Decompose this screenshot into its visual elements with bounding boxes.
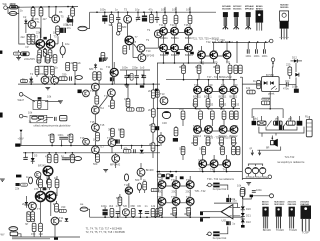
speaker SP [271, 136, 278, 147]
resistor pair Rq6 [151, 208, 160, 216]
svg-text:1N4148: 1N4148 [261, 97, 271, 101]
resistor R29 [151, 90, 155, 98]
contact resistor A [257, 121, 266, 125]
svg-text:BD911: BD911 [185, 36, 193, 40]
ground G4 [58, 101, 63, 103]
svg-text:100n: 100n [292, 85, 298, 89]
cap C8 with arrow [136, 12, 140, 21]
resistor Rv1 [159, 207, 163, 215]
svg-text:T19: T19 [124, 183, 129, 187]
cap blob between [43, 187, 47, 190]
wire output right [242, 196, 269, 199]
wires T27-29 up [201, 42, 227, 63]
input WE L terminal [19, 114, 23, 118]
thermistor pair P3 [26, 212, 35, 222]
svg-text:2SA1943: 2SA1943 [300, 203, 310, 206]
svg-text:0R33: 0R33 [220, 103, 227, 107]
svg-text:0R33: 0R33 [213, 65, 220, 69]
emitter blob F2 [180, 176, 184, 179]
bus y108.4 [157, 107, 240, 109]
diode Dc2 [141, 75, 144, 78]
elko Cq1 [103, 207, 108, 217]
transistor T52 [92, 146, 100, 154]
svg-text:D5: D5 [34, 154, 38, 158]
svg-text:T13: T13 [160, 92, 165, 96]
svg-text:47k: 47k [45, 155, 50, 159]
label cluster outbot [156, 107, 238, 216]
left edge mark2 [0, 113, 3, 118]
svg-text:0R33: 0R33 [231, 141, 238, 145]
svg-text:220R: 220R [10, 2, 16, 6]
junctions y79.7 [183, 79, 235, 81]
power transistor T28 [210, 51, 218, 59]
svg-text:100u: 100u [100, 8, 106, 12]
wire y63 [157, 62, 215, 64]
svg-text:2k2: 2k2 [21, 35, 26, 39]
svg-text:47k: 47k [124, 147, 129, 151]
top bus y12 [90, 11, 216, 13]
svg-text:2SA1930: 2SA1930 [288, 203, 298, 206]
svg-text:12k: 12k [77, 61, 82, 65]
diode D11 [295, 73, 299, 77]
oval Rq1 [137, 183, 141, 190]
LED D2 [63, 14, 72, 26]
package Q5 TO220 [279, 11, 289, 40]
svg-text:1n5: 1n5 [140, 66, 145, 70]
wires opamp area [200, 210, 243, 225]
svg-text:0R33: 0R33 [207, 103, 214, 107]
power transistor T31 [205, 86, 213, 94]
svg-text:150: 150 [36, 59, 41, 63]
elko Cx1 [214, 195, 238, 208]
elko Cr1 dark [275, 121, 280, 125]
rails link verticals [95, 146, 141, 153]
connector ellipse 2 [75, 76, 82, 80]
elko C1 ellipse [9, 11, 17, 15]
diode arrow left [18, 130, 24, 141]
fuse box F1 [10, 2, 18, 9]
power transistor T80 [194, 126, 202, 134]
svg-text:WY: WY [1, 233, 5, 237]
svg-text:BF470: BF470 [256, 7, 263, 10]
junctions y42 [221, 41, 266, 43]
vertical feeds rows7-8 [162, 212, 190, 217]
power transistor T88 [158, 181, 166, 189]
transistor T84 left [157, 135, 165, 143]
svg-text:47k: 47k [37, 176, 42, 180]
resistor R1 [31, 7, 35, 21]
wire chain row8 [166, 202, 187, 204]
cap Cq3 [145, 212, 149, 214]
svg-text:C30: C30 [162, 121, 167, 125]
svg-text:przek.: przek. [268, 92, 275, 96]
wire WE P [23, 95, 35, 102]
wire chain row4 [201, 91, 230, 93]
label cluster topmid [89, 8, 153, 113]
svg-text:T20: T20 [123, 204, 128, 208]
svg-text:bezpiecznik: bezpiecznik [213, 236, 227, 240]
svg-text:100n: 100n [122, 66, 128, 70]
ground G5 [0, 179, 5, 181]
svg-text:BD140: BD140 [262, 203, 269, 206]
power transistor T86 [210, 160, 218, 168]
junction dots bus y84 extra [126, 83, 154, 85]
wires T30-33 [198, 80, 235, 99]
resistor R15 [73, 62, 77, 84]
svg-text:T16: T16 [104, 94, 109, 98]
svg-text:0R33: 0R33 [179, 65, 186, 69]
svg-text:BD911: BD911 [160, 36, 168, 40]
cap Cn3 100n [262, 43, 268, 58]
bottom rail y237 [12, 236, 80, 238]
diode chain D21 [241, 213, 245, 216]
wire under relay [262, 91, 270, 106]
verticals rows top [161, 126, 183, 160]
svg-text:680: 680 [116, 196, 121, 200]
package Q1 TO92 [223, 12, 228, 29]
resistor Ro1 [39, 179, 43, 187]
resistor R2 [39, 7, 43, 38]
transistor T20 [91, 106, 104, 114]
output coil box [240, 190, 244, 197]
ground G2 [45, 87, 50, 89]
power transistor T82 [219, 126, 227, 134]
svg-text:T1, T4, T6, T10, T17 = BC546B: T1, T4, T6, T10, T17 = BC546B [86, 226, 122, 230]
wire y66 [37, 65, 52, 67]
svg-text:150: 150 [47, 59, 52, 63]
resistor Rp1 [288, 66, 292, 79]
junctions y108 [195, 108, 235, 110]
resistor Rm5 [71, 153, 75, 163]
bottom bus y217.2 [90, 216, 242, 218]
resistor Rp2 [257, 80, 261, 88]
power transistor T27 [198, 51, 206, 59]
svg-text:T21-T42: T21-T42 [285, 155, 295, 159]
svg-text:220: 220 [286, 63, 291, 67]
resistor Ru1 [181, 146, 185, 154]
svg-text:D20: D20 [246, 207, 251, 211]
label cluster botleft [22, 120, 154, 236]
power transistor T92 [172, 198, 180, 206]
wire top bus left [19, 6, 78, 9]
node A [18, 6, 20, 8]
resistor R18 [150, 12, 154, 23]
resistor Rt5 [174, 128, 178, 136]
svg-text:100: 100 [108, 104, 113, 108]
vertical feeds columns [165, 7, 190, 12]
svg-text:T16: T16 [80, 136, 85, 140]
wire chain row1 [167, 32, 184, 34]
svg-text:10R: 10R [179, 107, 184, 111]
cap C12 [124, 70, 128, 84]
resistor Rn4 [96, 154, 100, 162]
wire to gnd [45, 101, 60, 103]
black comp left [78, 90, 82, 94]
label cluster psu [246, 56, 298, 91]
resistor Ro4 [32, 223, 36, 231]
resistor Rb2 [197, 65, 201, 80]
svg-text:BD912: BD912 [219, 134, 227, 138]
cap Cn1 100n [245, 43, 251, 58]
transistor T63 [51, 217, 59, 225]
junction dots top bus [32, 6, 69, 8]
wires row5 [203, 155, 227, 172]
svg-text:10R: 10R [219, 147, 224, 151]
junction dots outtop bus [164, 11, 191, 13]
resistor Rn5 [151, 124, 155, 132]
power transistor T83 [230, 126, 238, 134]
svg-text:2k2: 2k2 [149, 142, 154, 146]
svg-text:T27 - T34 BD911/912: T27 - T34 BD911/912 [207, 75, 232, 79]
svg-text:na wspólnym radiatorze: na wspólnym radiatorze [277, 160, 305, 164]
svg-text:10k: 10k [28, 111, 33, 115]
diode Dc1 [127, 75, 130, 78]
svg-text:RL: RL [305, 115, 309, 119]
svg-text:47k: 47k [124, 97, 129, 101]
transistor T54 [110, 155, 121, 167]
diode Do2 [65, 218, 69, 221]
svg-text:BD912: BD912 [160, 53, 168, 57]
resistor R11 [35, 66, 39, 77]
labels under circles row1 [160, 36, 193, 40]
cap C5 dark [23, 53, 27, 56]
cap Cm5 [62, 158, 66, 160]
connector ellipse bot [80, 207, 88, 211]
svg-text:T36: T36 [207, 124, 212, 128]
cap C14 [142, 70, 146, 84]
ground G3 [103, 58, 108, 60]
wire wy2 down [271, 63, 274, 77]
package Q4 label [256, 5, 263, 10]
transistor T41 small [35, 171, 41, 177]
input terminal WE [3, 2, 8, 9]
svg-text:T35: T35 [193, 124, 198, 128]
resistor R16 h [20, 79, 27, 82]
diode chain D22 [241, 219, 245, 222]
bottom wire y178.4 [242, 177, 268, 179]
wire wy right [206, 183, 213, 187]
comps right of T7 [59, 76, 72, 80]
left edge mark [0, 51, 2, 54]
wires row3 to bus63 [203, 42, 237, 65]
transistor T17 [92, 83, 100, 91]
svg-text:BY550: BY550 [266, 73, 274, 77]
svg-text:pk3: pk3 [288, 117, 293, 121]
power transistor T89 [172, 181, 180, 189]
junctions rail2 [25, 152, 73, 154]
svg-text:T25: T25 [184, 23, 189, 27]
wires LTP area [32, 28, 51, 63]
power transistor T85 [199, 160, 207, 168]
svg-text:10k: 10k [237, 184, 242, 188]
cap Cm1 [54, 117, 56, 121]
svg-text:BD912: BD912 [230, 134, 238, 138]
svg-text:TO3P: TO3P [302, 231, 309, 235]
svg-text:T29: T29 [208, 83, 213, 87]
power transistor T91 [158, 198, 166, 206]
junction dots bus y12 [96, 11, 157, 13]
small comps lower left [14, 52, 21, 55]
resistor R8 [37, 55, 41, 63]
switch arm B [284, 121, 288, 127]
bracket nest [259, 127, 304, 137]
resistor Rq5 [131, 208, 135, 217]
svg-text:hP: hP [25, 222, 28, 226]
emitter resistor pair a [158, 174, 165, 177]
junctions bus y84 [30, 83, 113, 85]
svg-text:22k: 22k [36, 31, 41, 35]
svg-text:10R: 10R [208, 107, 213, 111]
svg-text:T17: T17 [100, 145, 105, 149]
svg-text:330: 330 [61, 205, 66, 209]
svg-text:BF469: BF469 [146, 168, 154, 172]
connector ellipse left [78, 26, 87, 30]
svg-text:2SC: 2SC [186, 189, 191, 193]
transistor T70 [125, 187, 132, 194]
svg-text:680: 680 [122, 25, 127, 29]
resistor R21 [101, 52, 105, 60]
bus y79.7 [166, 79, 237, 81]
resistor Rm4 [54, 153, 58, 163]
relay box K1 [262, 77, 280, 92]
wire chain row5 [201, 130, 230, 132]
resistor Rd1 [156, 90, 159, 98]
label cluster botmid [80, 178, 162, 208]
cap Cm3 [64, 137, 68, 139]
pot box P [33, 97, 48, 109]
svg-text:100u: 100u [101, 204, 107, 208]
svg-text:MJE15031: MJE15031 [274, 204, 285, 206]
LTP transistor T60 [35, 191, 45, 201]
svg-text:T15: T15 [90, 120, 95, 124]
package P4 labels [300, 201, 310, 205]
black rect left [155, 126, 159, 130]
svg-text:D22: D22 [246, 220, 251, 224]
svg-text:100n: 100n [256, 188, 262, 192]
elko C3 oval [60, 42, 65, 58]
cap C10 [155, 12, 159, 23]
power transistor T87 [223, 160, 231, 168]
driver resistor Ra1 [163, 12, 167, 27]
diode Dq1 [138, 210, 142, 217]
cap Cx2 [252, 191, 256, 193]
label BZP683 [67, 19, 74, 27]
svg-text:T33: T33 [233, 83, 238, 87]
svg-text:T39: T39 [186, 178, 191, 182]
svg-text:T39: T39 [198, 159, 203, 163]
svg-text:0R33: 0R33 [218, 141, 225, 145]
transistor T20b [83, 90, 90, 97]
package P3 [289, 207, 298, 233]
svg-text:T14: T14 [90, 89, 95, 93]
svg-text:470: 470 [34, 187, 39, 191]
wire connector [88, 209, 90, 217]
labels under row8 [158, 206, 191, 210]
svg-text:2SA: 2SA [186, 206, 191, 210]
thermistor pair P1 [27, 34, 36, 45]
svg-text:220k: 220k [48, 133, 54, 137]
wire [46, 117, 54, 119]
oval Rm7 [37, 179, 41, 186]
svg-text:T28: T28 [198, 49, 203, 53]
wires rows67 [162, 176, 190, 212]
svg-text:T37: T37 [220, 124, 225, 128]
ground Gc [124, 85, 129, 87]
input ellipse bottom [74, 157, 81, 161]
transistor T10 [137, 44, 145, 52]
svg-text:T23: T23 [170, 23, 175, 27]
svg-text:T11: T11 [106, 65, 111, 69]
WY box [1, 232, 18, 237]
junctions rail1 [51, 145, 142, 147]
svg-text:T39 - T42 na radiatorze: T39 - T42 na radiatorze [207, 177, 235, 181]
svg-text:BC556B: BC556B [222, 8, 231, 10]
cap C2 between LTP [43, 37, 46, 40]
power transistor T21 [160, 27, 168, 35]
resistor R9 [46, 55, 50, 63]
box labeled [60, 116, 67, 121]
svg-text:10R: 10R [172, 8, 177, 12]
svg-text:T37: T37 [171, 178, 176, 182]
wire T1 collector [31, 18, 33, 21]
cap Cn2 100n [254, 43, 260, 58]
wire bus y42 [212, 42, 268, 44]
output terminal circle [270, 194, 274, 198]
svg-text:BD911: BD911 [193, 95, 201, 99]
resistor Rq2 [143, 182, 147, 190]
power transistor T32 [219, 86, 227, 94]
wire WY [13, 231, 21, 237]
elko C11 [99, 58, 104, 62]
resistor R30 [151, 109, 155, 117]
svg-text:D6: D6 [138, 204, 142, 208]
svg-text:680: 680 [131, 204, 136, 208]
power transistor T24 [160, 44, 168, 52]
contact block D [297, 121, 303, 126]
bus y171.6 [157, 171, 242, 173]
svg-text:BC560C: BC560C [233, 8, 242, 10]
svg-text:100n: 100n [245, 54, 251, 58]
svg-text:D12: D12 [292, 56, 297, 60]
elko C9 [142, 12, 147, 21]
wire right column [295, 63, 297, 92]
ground G1 [16, 58, 21, 60]
svg-text:0R33: 0R33 [192, 103, 199, 107]
wire fuse to node [18, 6, 19, 8]
black bar [241, 225, 245, 228]
comps right [151, 188, 159, 191]
svg-text:3k3: 3k3 [109, 23, 114, 27]
diode Do1 [25, 200, 29, 208]
diode D4 [94, 63, 97, 69]
svg-text:47u: 47u [149, 8, 154, 12]
comps above LTP [15, 183, 27, 191]
contact block A [252, 121, 256, 125]
svg-text:gł.: gł. [250, 146, 253, 150]
svg-text:TO220: TO220 [289, 228, 297, 232]
LTP transistor T61 [46, 191, 56, 201]
transistor T4 LTP right [46, 35, 57, 49]
svg-text:MJE350: MJE350 [280, 7, 289, 9]
labels under row6 [199, 168, 228, 172]
resistor Rm2 [69, 134, 73, 142]
resistor Rc1 [194, 99, 198, 109]
svg-text:WE P: WE P [18, 98, 25, 102]
resistor Ro2 [47, 179, 51, 187]
svg-text:2k2: 2k2 [22, 202, 27, 206]
svg-text:T15: T15 [100, 123, 105, 127]
svg-text:150: 150 [31, 232, 36, 236]
